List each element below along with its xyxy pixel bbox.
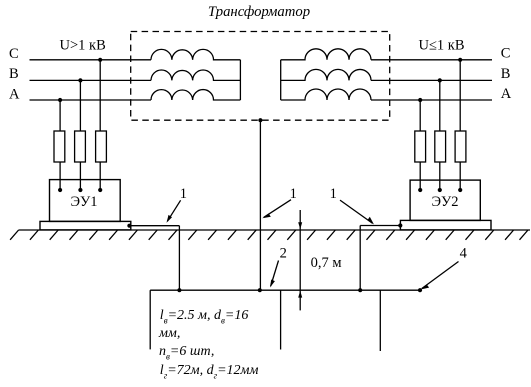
wire A drop right xyxy=(419,100,421,131)
wire phase C left xyxy=(30,59,152,61)
svg-text:1: 1 xyxy=(180,186,187,202)
callout arrow 4 xyxy=(422,262,459,289)
wire FV3 to EU1 xyxy=(99,162,101,190)
wire FV1 to EU1 xyxy=(59,162,61,190)
junction dot A right xyxy=(418,98,422,102)
dimension arrowhead top xyxy=(298,222,302,229)
terminal dot EU1-2 xyxy=(78,188,82,192)
junction dot B right xyxy=(438,78,442,82)
neutral grounding conductor xyxy=(259,120,261,290)
svg-text:4: 4 xyxy=(460,246,468,262)
callout arrow 1 right xyxy=(340,200,373,223)
down conductor right xyxy=(359,226,361,291)
svg-text:Трансформатор: Трансформатор xyxy=(208,4,310,20)
wire phase A left xyxy=(30,99,152,101)
svg-text:2: 2 xyxy=(280,245,287,261)
primary winding phase B coil xyxy=(151,70,240,80)
secondary winding phase B coil xyxy=(281,69,371,80)
transformer T1 dashed boundary box xyxy=(131,32,390,121)
junction dot neutral bottom xyxy=(258,288,262,292)
wire FV2 to EU1 xyxy=(79,162,81,190)
wire phase C right xyxy=(371,59,492,61)
svg-text:A: A xyxy=(9,86,20,102)
wire phase A right xyxy=(371,99,492,101)
ground surface line xyxy=(19,229,530,231)
svg-text:0,7 м: 0,7 м xyxy=(311,255,342,271)
secondary winding phase A coil xyxy=(281,89,371,100)
wire A drop left xyxy=(59,100,61,131)
dimension arrowhead bottom xyxy=(298,291,302,298)
junction dot C right xyxy=(458,58,462,62)
wire C drop right xyxy=(459,60,461,131)
terminal dot EU2-2 xyxy=(438,188,442,192)
svg-text:ЭУ1: ЭУ1 xyxy=(70,194,97,210)
grounding strip EU2 xyxy=(360,225,400,227)
svg-text:U≤1 кВ: U≤1 кВ xyxy=(419,38,465,54)
svg-text:A: A xyxy=(501,86,512,102)
terminal dot EU1-1 xyxy=(58,188,62,192)
svg-text:B: B xyxy=(501,66,511,82)
junction dot B left xyxy=(78,78,82,82)
svg-text:lв=2.5 м, dв=16: lв=2.5 м, dв=16 xyxy=(160,308,249,326)
terminal dot EU1-3 xyxy=(98,188,102,192)
junction dot left on grid xyxy=(177,288,181,292)
EU1 pedestal xyxy=(40,221,131,230)
terminal dot EU2-1 xyxy=(418,188,422,192)
callout arrow 2 xyxy=(271,261,279,287)
callout arrow 1 left xyxy=(167,200,180,221)
primary neutral bar xyxy=(239,60,241,100)
junction dot A left xyxy=(58,98,62,102)
vertical electrode 1 xyxy=(149,290,151,349)
arrester FV4 xyxy=(415,131,426,162)
wire phase B left xyxy=(30,79,152,81)
buried horizontal earthing conductor xyxy=(150,289,420,291)
arrester FV1 xyxy=(54,131,65,162)
svg-text:U>1 кВ: U>1 кВ xyxy=(60,38,106,54)
ground hatching xyxy=(10,230,528,240)
vertical electrode 2 xyxy=(280,290,282,349)
secondary neutral bar xyxy=(280,60,282,100)
junction dot C left xyxy=(98,58,102,62)
svg-text:мм,: мм, xyxy=(158,326,180,341)
secondary winding phase C coil xyxy=(281,49,371,60)
junction dot strip EU2 xyxy=(398,223,402,227)
junction dot neutral top xyxy=(258,118,262,122)
primary winding phase A coil xyxy=(151,90,240,100)
wire B drop left xyxy=(79,80,81,131)
wire FV6 to EU2 xyxy=(459,162,461,190)
svg-text:ЭУ2: ЭУ2 xyxy=(431,194,458,210)
down conductor left xyxy=(178,226,180,291)
arrester FV5 xyxy=(435,131,446,162)
arrester FV3 xyxy=(96,131,107,162)
terminal dot EU2-3 xyxy=(458,188,462,192)
primary winding phase C coil xyxy=(151,49,240,59)
svg-text:lг=72м, dг=12мм: lг=72м, dг=12мм xyxy=(160,363,259,381)
EU2 pedestal xyxy=(400,220,491,230)
callout arrow 1 middle xyxy=(264,200,291,218)
junction dot strip EU1 xyxy=(127,224,131,228)
wire FV5 to EU2 xyxy=(439,162,441,190)
wire phase B right xyxy=(371,79,492,81)
vertical electrode 3 xyxy=(379,290,381,351)
svg-text:B: B xyxy=(9,66,19,82)
wire B drop right xyxy=(439,80,441,131)
svg-text:C: C xyxy=(501,46,511,62)
junction dot right on grid xyxy=(358,288,362,292)
grounding strip EU1 xyxy=(129,225,179,227)
arrester FV2 xyxy=(75,131,86,162)
wire FV4 to EU2 xyxy=(419,162,421,190)
wire C drop left xyxy=(99,60,101,131)
electrical unit EU2 box xyxy=(410,180,480,220)
arrester FV6 xyxy=(455,131,466,162)
dimension line 0.7m xyxy=(299,210,301,310)
svg-text:C: C xyxy=(9,46,19,62)
annotation text block xyxy=(158,308,258,381)
electrical unit EU1 box xyxy=(50,180,121,222)
junction dot buried end xyxy=(418,288,422,292)
svg-text:1: 1 xyxy=(330,186,337,202)
